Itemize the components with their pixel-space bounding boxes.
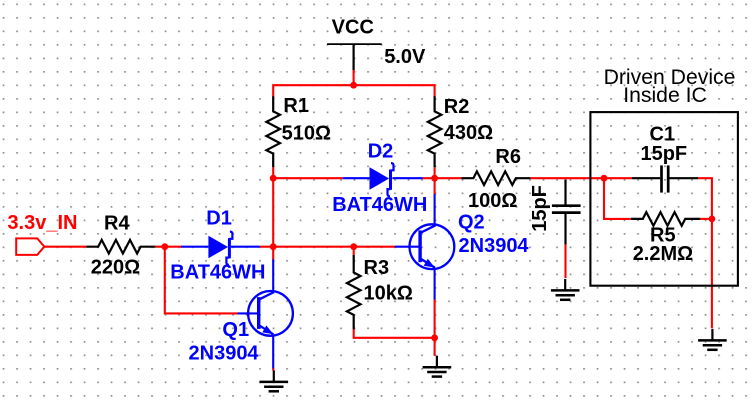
svg-text:10kΩ: 10kΩ	[364, 283, 413, 305]
ground (IC return)	[698, 329, 727, 350]
svg-text:BAT46WH: BAT46WH	[332, 194, 427, 216]
junction R2/D2/R6	[431, 175, 438, 182]
junction D1/Q1 collector	[270, 243, 277, 250]
resistor R1	[266, 96, 280, 167]
wire Q1 emitter stub	[272, 368, 274, 370]
resistor R6	[461, 171, 530, 185]
wire R3 top stub	[353, 247, 355, 256]
wire R2 bottom stub	[434, 167, 436, 178]
box Driven Device Inside IC	[590, 112, 738, 286]
svg-text:D2: D2	[368, 140, 394, 162]
wire node R2 to R6	[435, 177, 462, 179]
junction C1/R5 right	[709, 216, 716, 223]
wire R3 bottom to Q2 emitter	[354, 329, 435, 338]
svg-text:R3: R3	[364, 257, 390, 279]
transistor Q2 2N3904	[395, 194, 454, 300]
resistor R4	[86, 240, 155, 254]
svg-text:R1: R1	[283, 95, 309, 117]
junction R6/C1/R5	[601, 175, 608, 182]
svg-text:Q2: Q2	[458, 211, 485, 233]
wire C1 right to corner down	[698, 178, 712, 219]
junction R3 top	[350, 243, 357, 250]
wire D2 cathode to node R2	[423, 177, 435, 179]
wire C2 to ground	[564, 244, 566, 278]
wire D1 cathode through nodes to Q2 base	[260, 246, 395, 248]
svg-text:Q1: Q1	[222, 319, 249, 341]
wire Q1 collector stub	[272, 247, 274, 260]
svg-text:2N3904: 2N3904	[189, 343, 260, 365]
diode D2 BAT46WH	[343, 163, 423, 196]
wire R1 bottom stub	[272, 167, 274, 178]
svg-text:15pF: 15pF	[640, 143, 687, 165]
svg-text:Inside IC: Inside IC	[623, 84, 707, 107]
junction VCC rail	[350, 82, 357, 89]
junction R1/D2	[270, 175, 277, 182]
wire Q2 emitter to ground	[434, 299, 436, 356]
svg-text:BAT46WH: BAT46WH	[170, 261, 265, 283]
wire Q2 collector stub	[434, 178, 436, 194]
svg-text:430Ω: 430Ω	[444, 122, 493, 144]
svg-text:VCC: VCC	[332, 17, 374, 39]
svg-text:R4: R4	[104, 213, 130, 235]
svg-text:2N3904: 2N3904	[459, 235, 530, 257]
diode D1 BAT46WH	[181, 232, 260, 265]
wire input node down and to Q1 base	[165, 247, 238, 314]
wire top rail VCC to R1/R2	[273, 85, 434, 96]
junction R4/D1	[161, 243, 168, 250]
resistor R3	[347, 255, 361, 329]
svg-text:3.3v_IN: 3.3v_IN	[7, 212, 77, 234]
ground (Q2/R3)	[423, 356, 452, 377]
ground (Q1 emitter)	[260, 370, 289, 391]
wire node down to R5 left	[604, 178, 631, 219]
svg-text:220Ω: 220Ω	[91, 256, 140, 278]
ground (C2)	[551, 279, 580, 300]
junction R3/Q2 emitter	[431, 334, 438, 341]
resistor R5	[631, 212, 700, 226]
wire port to R4	[44, 246, 86, 248]
wire VCC stub	[353, 70, 355, 85]
svg-text:5.0V: 5.0V	[384, 46, 426, 68]
svg-text:R2: R2	[444, 96, 470, 118]
svg-text:510Ω: 510Ω	[282, 122, 331, 144]
capacitor C2 15pF (decoupling)	[552, 180, 581, 245]
wire R1 node down to D1 node	[272, 178, 274, 247]
wire R4 to D1 anode	[155, 246, 181, 248]
capacitor C1	[632, 165, 698, 192]
svg-text:R6: R6	[495, 146, 521, 168]
svg-text:15pF: 15pF	[529, 185, 551, 232]
wire right node to ground	[711, 219, 713, 328]
port 3.3v_IN	[16, 238, 44, 255]
power symbol VCC	[327, 44, 382, 70]
svg-text:D1: D1	[206, 208, 232, 230]
transistor Q1 2N3904	[238, 259, 293, 368]
wire node R1 to D2 anode	[273, 177, 343, 179]
svg-text:C1: C1	[650, 123, 676, 145]
wire R5 right stub	[699, 218, 712, 220]
resistor R2	[428, 96, 442, 167]
svg-text:100Ω: 100Ω	[468, 190, 517, 212]
svg-text:2.2MΩ: 2.2MΩ	[633, 243, 694, 265]
wire R6 to C1	[530, 177, 632, 179]
